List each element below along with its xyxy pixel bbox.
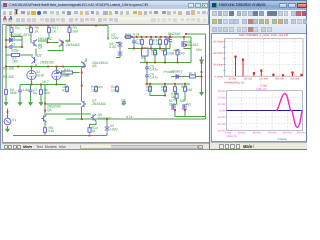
- wire B+ rail: [124, 35, 191, 37]
- node 177.5,62: [177, 61, 179, 63]
- svg-text:40.00K: 40.00K: [229, 77, 237, 80]
- svg-text:Ra: Ra: [15, 26, 19, 30]
- wire hangers bottom: [134, 44, 166, 48]
- wire node col D1/C1: [21, 40, 23, 47]
- wire mid link upper: [45, 103, 82, 105]
- wire mid rail 2: [128, 47, 170, 49]
- wire Q8 emitter: [90, 121, 97, 127]
- capacitor C2: [18, 88, 22, 93]
- mosfet M1: [168, 36, 172, 42]
- node 41,84: [40, 83, 42, 85]
- wire bottom heater rail: [13, 134, 107, 136]
- ground g3: [29, 99, 32, 105]
- mosfet M8: [183, 104, 187, 110]
- ground g1: [4, 99, 7, 105]
- node 31.5,66: [31, 65, 33, 67]
- node 160.7,36.4: [160, 36, 162, 38]
- svg-text:0.47u: 0.47u: [150, 67, 159, 71]
- wire below resistors: [150, 92, 185, 100]
- battery V3: [105, 125, 110, 131]
- node 81.7,85: [81, 84, 83, 86]
- resistor R23: [165, 38, 168, 45]
- wire Q6 top: [85, 58, 87, 62]
- svg-text:2.2M: 2.2M: [153, 41, 161, 45]
- svg-text:1mhy: 1mhy: [111, 88, 120, 92]
- svg-text:0.47u: 0.47u: [150, 75, 159, 79]
- ground top right: [200, 57, 203, 63]
- svg-text:R11: R11: [64, 68, 70, 72]
- node 132,36.4: [131, 36, 133, 38]
- wire R17 col: [48, 33, 50, 38]
- tube X2: [27, 70, 36, 79]
- node 10,25: [9, 24, 11, 26]
- svg-text:RL: RL: [189, 71, 193, 75]
- wire ground return rail: [66, 118, 206, 120]
- node 96,25: [95, 24, 97, 26]
- wire R17 to link: [48, 38, 50, 41]
- wire bias col 4: [40, 84, 42, 88]
- node 45,103: [44, 102, 46, 104]
- node 56.5,66: [56, 65, 58, 67]
- node 48,66: [47, 65, 49, 67]
- svg-text:Q3: Q3: [37, 53, 42, 57]
- svg-text:12K: 12K: [25, 26, 32, 30]
- wire Q1-Q4 link: [38, 41, 59, 45]
- svg-text:10.000: 10.000: [218, 103, 226, 106]
- svg-text:0.2k: 0.2k: [126, 115, 133, 119]
- mosfet M2: [182, 41, 186, 47]
- resistor R25: [176, 49, 179, 56]
- wire M2 link: [184, 36, 191, 48]
- node 48,25: [47, 24, 49, 26]
- resistor R3: [68, 26, 71, 33]
- node 142,48: [141, 47, 143, 49]
- svg-text:200.00K: 200.00K: [290, 77, 300, 80]
- resistor R12: [66, 85, 69, 92]
- node 147,62: [146, 61, 148, 63]
- svg-text:330p: 330p: [11, 48, 19, 52]
- capacitor C5: [145, 65, 149, 70]
- svg-text:W5: W5: [186, 102, 191, 106]
- transistor Q6: [81, 61, 86, 68]
- node 30,25: [29, 24, 31, 26]
- svg-text:120V: 120V: [111, 36, 120, 40]
- wire outer loop right: [205, 34, 207, 119]
- resistor R32: [174, 85, 177, 92]
- wire X5 col: [144, 56, 146, 63]
- wire cathode bus: [20, 83, 66, 85]
- wire output rail: [201, 56, 203, 95]
- svg-text:-10.000: -10.000: [217, 116, 226, 119]
- wire Q5 collector: [44, 84, 46, 115]
- svg-text:4u: 4u: [121, 101, 125, 105]
- resistor R11: [60, 71, 74, 74]
- svg-text:0.00u: 0.00u: [225, 131, 232, 134]
- node 165,83.3: [164, 82, 166, 84]
- node 175,83.3: [174, 82, 176, 84]
- node 6,46.5: [5, 46, 7, 48]
- transistor Q5: [42, 115, 47, 122]
- svg-text:40.000m: 40.000m: [213, 52, 223, 55]
- svg-text:Rgs: Rgs: [125, 32, 131, 36]
- resistor R31: [164, 85, 167, 92]
- wire B+ hangers: [134, 36, 166, 39]
- node 18,66: [17, 65, 19, 67]
- svg-text:6DJ8: 6DJ8: [36, 73, 44, 77]
- node 156,36.4: [155, 36, 157, 38]
- wire rail E hangers: [150, 83, 185, 85]
- svg-text:120.00K: 120.00K: [259, 77, 269, 80]
- capacitor C7: [132, 39, 136, 44]
- svg-text:160.00u: 160.00u: [252, 131, 262, 134]
- node 151,48: [150, 47, 152, 49]
- wire lower rail: [6, 65, 86, 67]
- wire V4 bottom: [116, 54, 120, 57]
- wire R2 row: [6, 54, 31, 56]
- svg-text:4n7: 4n7: [136, 41, 142, 45]
- svg-text:100: 100: [91, 88, 97, 92]
- node 201.5,62.5: [201, 62, 203, 64]
- node 6,66: [5, 65, 7, 67]
- svg-text:D1: D1: [11, 35, 15, 39]
- svg-text:320.00u: 320.00u: [283, 131, 293, 134]
- wire mid link lower: [46, 113, 91, 115]
- node 201.5,71.5: [201, 71, 203, 73]
- wire R11 row: [56, 71, 80, 73]
- svg-text:0.000: 0.000: [219, 110, 226, 113]
- wire X2 cathode: [31, 79, 33, 84]
- transistor Q8: [91, 114, 96, 121]
- wire X2 top: [31, 66, 33, 70]
- capacitor C3: [29, 88, 33, 93]
- resistor R14: [150, 38, 153, 45]
- wire right vertical: [190, 36, 192, 62]
- svg-text:10k: 10k: [161, 88, 167, 92]
- node 165,95: [164, 94, 166, 96]
- wire Q3 branch: [31, 48, 36, 66]
- tube X4: [52, 70, 61, 79]
- resistor R6: [5, 88, 8, 95]
- capacitor C8: [122, 100, 126, 105]
- capacitor C1: [8, 45, 14, 49]
- capacitor C6: [145, 73, 149, 78]
- node 165.5,36.4: [165, 36, 167, 38]
- svg-text:50V: 50V: [196, 48, 203, 52]
- mosfet M7: [172, 104, 176, 110]
- wire V3 to ground rail: [106, 119, 108, 135]
- node 107,118.6: [106, 118, 108, 120]
- wire output row: [171, 75, 202, 77]
- resistor Rb: [30, 26, 33, 33]
- resistor R17: [48, 26, 51, 33]
- node 160,48: [159, 47, 161, 49]
- node 165,62: [164, 61, 166, 63]
- inductor L1: [116, 85, 119, 92]
- svg-text:500: 500: [44, 91, 50, 95]
- svg-text:240: 240: [179, 51, 185, 55]
- node 81.7,72: [81, 71, 83, 73]
- node 150,83.3: [149, 82, 151, 84]
- wire bias bottoms: [6, 93, 41, 99]
- diode D2 output: [175, 74, 181, 78]
- wire bias col 2: [19, 84, 21, 88]
- wire to output loop: [184, 115, 206, 117]
- ground below V1: [6, 126, 9, 132]
- resistor R9: [44, 126, 47, 133]
- wire battery column: [116, 42, 120, 50]
- wire rail E: [145, 82, 190, 84]
- wire caps chain: [146, 62, 148, 83]
- node 89.5,135: [89, 134, 91, 136]
- wire X4 top: [56, 66, 58, 70]
- resistor R27: [164, 49, 167, 56]
- svg-text:R4 300: R4 300: [3, 75, 14, 79]
- node loop B: [185, 44, 187, 46]
- node 136.7,36.4: [136, 36, 138, 38]
- node 81.7,118.6: [81, 118, 83, 120]
- node 6,39.5: [5, 39, 7, 41]
- svg-text:8.2k: 8.2k: [133, 32, 140, 36]
- resistor RL: [188, 75, 197, 78]
- wire R24-R27 cols: [155, 56, 178, 63]
- resistor R13: [95, 85, 98, 92]
- svg-text:560: 560: [73, 29, 79, 33]
- node 185,109.7: [184, 109, 186, 111]
- svg-text:-20.000: -20.000: [217, 123, 226, 126]
- svg-text:1.8u: 1.8u: [23, 88, 30, 92]
- source V1: [4, 118, 11, 125]
- svg-text:R12: R12: [62, 88, 68, 92]
- svg-text:Q6: Q6: [92, 64, 97, 68]
- svg-text:2N5401C: 2N5401C: [38, 36, 53, 40]
- svg-text:400.00u: 400.00u: [296, 131, 306, 134]
- svg-text:1K: 1K: [52, 29, 57, 33]
- node loop A: [185, 33, 187, 35]
- wire M1 drain: [169, 33, 171, 48]
- node 151,36.4: [150, 36, 152, 38]
- node 175,109.7: [174, 109, 176, 111]
- svg-text:V1: V1: [12, 118, 16, 122]
- node 22,46.5: [21, 46, 23, 48]
- svg-text:240: 240: [146, 88, 152, 92]
- wire Q4 down: [48, 44, 64, 50]
- node 56.5,84: [56, 83, 58, 85]
- svg-text:80.00K: 80.00K: [244, 77, 252, 80]
- wire outer loop top: [186, 33, 206, 35]
- ground g4: [39, 99, 42, 105]
- svg-text:6n: 6n: [33, 91, 37, 95]
- resistor R22: [159, 38, 162, 45]
- svg-text:30.000: 30.000: [218, 90, 226, 93]
- wire R3 col to Q4: [65, 33, 70, 41]
- node 31.5,84: [31, 83, 33, 85]
- svg-text:1k: 1k: [171, 95, 175, 99]
- svg-text:300: 300: [64, 73, 70, 77]
- component X5: [142, 48, 149, 56]
- node 184,36.4: [183, 36, 185, 38]
- resistor R24: [154, 49, 157, 56]
- svg-text:250W: 250W: [169, 102, 179, 106]
- svg-text:510: 510: [49, 129, 55, 133]
- node 45,110: [44, 109, 46, 111]
- svg-text:Q1: Q1: [38, 45, 43, 49]
- wire left column: [5, 25, 7, 66]
- svg-text:10.7: 10.7: [42, 80, 49, 84]
- node 147,83.3: [146, 82, 148, 84]
- svg-text:8: 8: [194, 71, 196, 75]
- svg-text:240: 240: [187, 88, 193, 92]
- node 47.5,42: [47, 41, 49, 43]
- svg-text:V(RL) (V): V(RL) (V): [227, 135, 238, 138]
- resistor R33: [184, 85, 187, 92]
- transistor Q7: [81, 100, 86, 107]
- svg-text:C1: C1: [11, 42, 15, 46]
- node 185,83.3: [184, 82, 186, 84]
- wire X4 cathode: [56, 79, 58, 84]
- svg-text:0.000m: 0.000m: [215, 75, 223, 78]
- svg-text:20.000: 20.000: [218, 96, 226, 99]
- node 134,48: [133, 47, 135, 49]
- battery V2: [118, 41, 123, 47]
- svg-text:R3 180: R3 180: [3, 66, 14, 70]
- battery V4: [118, 50, 123, 56]
- wire bias col 3: [30, 84, 32, 88]
- svg-text:160.00K: 160.00K: [275, 77, 285, 80]
- pin stub2: [95, 23, 96, 26]
- resistor R8: [40, 88, 43, 95]
- ground bottom right: [200, 90, 203, 95]
- svg-text:130V: 130V: [110, 127, 119, 131]
- wire R9 to bottom rail: [44, 133, 46, 135]
- wire C1 row: [6, 46, 22, 48]
- svg-text:2N3440C: 2N3440C: [66, 42, 81, 46]
- svg-text:2N3440C: 2N3440C: [92, 101, 107, 105]
- svg-text:2N3440C: 2N3440C: [98, 116, 113, 120]
- svg-text:2N3019C: 2N3019C: [40, 60, 55, 64]
- resistor R35: [175, 92, 178, 99]
- svg-text:X5: X5: [141, 56, 145, 60]
- resistor R14b: [88, 126, 91, 133]
- node 7.5,111.4: [7, 111, 9, 113]
- svg-text:1K: 1K: [35, 29, 40, 33]
- node 141.5,36.4: [141, 36, 143, 38]
- wire Q5 emitter to R9: [44, 121, 46, 126]
- svg-text:4.4V: 4.4V: [109, 45, 117, 49]
- svg-text:M8: M8: [180, 99, 185, 103]
- svg-text:80.00u: 80.00u: [238, 131, 246, 134]
- svg-text:10: 10: [92, 129, 96, 133]
- wire M7/M8 sources: [175, 110, 185, 116]
- svg-text:220k: 220k: [151, 51, 159, 55]
- svg-text:60.000m: 60.000m: [213, 40, 223, 43]
- node 63,42: [62, 41, 64, 43]
- node 63,66: [62, 65, 64, 67]
- svg-text:GOD-YRN5dBPS_h_planet_100%_spo: GOD-YRN5dBPS_h_planet_100%_spot.CIR: [239, 34, 289, 37]
- svg-text:DN2540: DN2540: [168, 32, 181, 36]
- node 146.3,36.4: [145, 36, 147, 38]
- svg-text:240.00u: 240.00u: [268, 131, 278, 134]
- ground g2: [18, 99, 21, 105]
- svg-text:6M8: 6M8: [10, 91, 17, 95]
- wire Rb to Q1 base: [30, 33, 33, 42]
- svg-text:20.000m: 20.000m: [213, 64, 223, 67]
- svg-text:2SK182: 2SK182: [186, 43, 198, 47]
- wire V1 top: [7, 108, 9, 118]
- wire Ra bottom: [12, 33, 23, 40]
- svg-text:Q5: Q5: [47, 107, 52, 111]
- pin stub: [47, 23, 48, 26]
- svg-text:180: 180: [12, 59, 18, 63]
- transistor Q4: [59, 39, 64, 46]
- node 69,25: [68, 24, 70, 26]
- wire bias col 1: [5, 66, 7, 88]
- resistor Rgs: [124, 35, 132, 38]
- resistor Ra: [10, 26, 13, 33]
- wire R load col: [176, 88, 178, 103]
- node 201.5,76: [201, 75, 203, 77]
- transistor Q1: [32, 39, 37, 46]
- wire top supply rail: [6, 24, 108, 26]
- node 155,62: [154, 61, 156, 63]
- wire V2 feed drop: [107, 25, 109, 38]
- svg-text:T (Secs): T (Secs): [277, 138, 287, 141]
- svg-text:HARM(V(RL)) (V): HARM(V(RL)) (V): [225, 82, 245, 85]
- node 170,36.4: [169, 36, 171, 38]
- resistor R30: [149, 85, 152, 92]
- wire D1 row: [6, 39, 22, 41]
- svg-text:Probe1: Probe1: [172, 69, 183, 73]
- wire Q6-Q7 column: [81, 69, 83, 101]
- wire Q7 down: [81, 107, 83, 119]
- resistor R2: [10, 53, 21, 56]
- transistor Q3: [32, 56, 37, 63]
- resistor R21: [141, 38, 144, 45]
- wire rail D: [140, 61, 191, 63]
- diode D1: [8, 38, 14, 42]
